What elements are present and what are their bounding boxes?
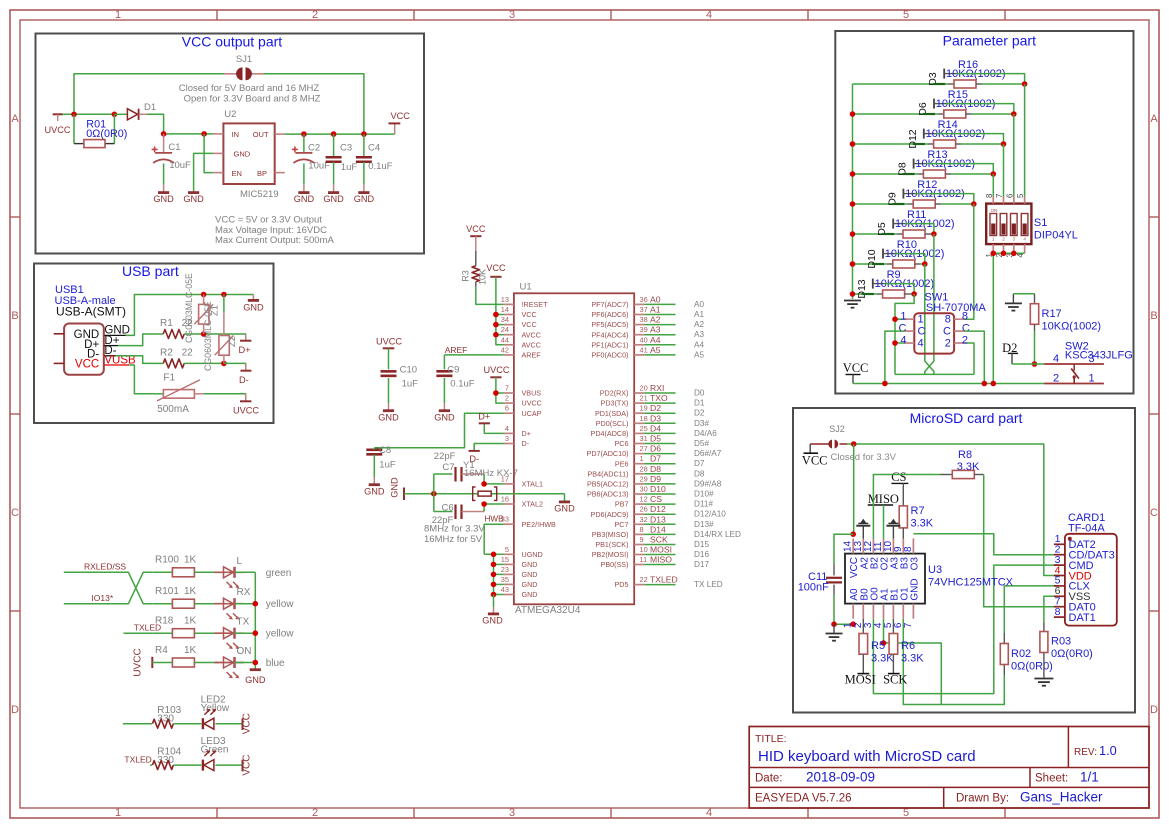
svg-text:VCC: VCC	[522, 310, 537, 319]
wire LED2 to VCC	[215, 723, 242, 725]
junction pin34	[493, 322, 499, 328]
U3 pin 9 B3	[893, 539, 911, 570]
LED2 Yellow	[201, 695, 230, 730]
mini ground U3 pin13	[856, 519, 870, 539]
U1 pin 16 XTAL2	[501, 495, 543, 509]
svg-text:D7: D7	[650, 454, 661, 464]
svg-text:D14: D14	[650, 524, 666, 534]
bus stub 14	[496, 314, 504, 316]
svg-text:PC6: PC6	[615, 439, 629, 448]
svg-text:19: 19	[640, 404, 648, 413]
U1 pin 34 VCC	[501, 315, 537, 329]
svg-text:VBUS: VBUS	[522, 389, 542, 398]
U3 pin 2 B0	[853, 588, 871, 628]
LED2 row wire	[123, 723, 152, 725]
junction R12 right	[971, 201, 977, 207]
svg-text:XTAL2: XTAL2	[522, 500, 543, 509]
svg-text:R101: R101	[155, 586, 179, 597]
section box: Parameter part	[835, 31, 1133, 394]
diode D3	[927, 69, 956, 86]
svg-text:PE2/!HWB: PE2/!HWB	[522, 520, 557, 529]
junction rail C-right	[982, 381, 988, 387]
svg-text:PD2(RX): PD2(RX)	[600, 389, 629, 398]
svg-text:D11#: D11#	[694, 500, 713, 509]
svg-text:0.1uF: 0.1uF	[368, 161, 392, 172]
svg-text:U1: U1	[520, 282, 532, 293]
resistor R11 10K	[895, 209, 955, 238]
svg-text:MISO: MISO	[650, 555, 672, 565]
junction A1 link	[881, 640, 887, 646]
net label D- pin3	[469, 444, 504, 465]
wire D1 to IN node	[147, 114, 164, 134]
wire EN tie	[204, 134, 213, 173]
svg-text:16MHz KX-7: 16MHz KX-7	[464, 468, 518, 479]
svg-text:TITLE:: TITLE:	[755, 733, 787, 745]
LED right bus	[254, 572, 256, 669]
wire R3 to pin13	[476, 287, 504, 305]
svg-text:SCK: SCK	[883, 673, 907, 687]
title block	[749, 727, 1149, 809]
svg-text:3: 3	[509, 9, 515, 21]
U1 pin 20 PD2(RX) net RXI	[600, 383, 705, 398]
U1 pin 41 PF0(ADC0) net A5	[591, 345, 704, 360]
svg-text:30: 30	[640, 485, 648, 494]
svg-text:4: 4	[706, 807, 712, 819]
U1 pin 9 PB1(SCK) net SCK	[595, 535, 709, 550]
wire IN row	[164, 133, 214, 135]
svg-text:HWB: HWB	[485, 515, 505, 524]
solder jumper SJ1	[224, 54, 264, 80]
svg-text:R100: R100	[155, 555, 179, 566]
junction Z2 top	[221, 292, 227, 298]
wire row R10 lower	[853, 263, 887, 265]
svg-text:!RESET: !RESET	[522, 300, 549, 309]
wire UCAP to C8	[374, 413, 504, 448]
U1 pin 38 PF5(ADC5) net A2	[591, 315, 704, 330]
wire VCC rail to C11	[834, 534, 853, 564]
resistor R7 3.3K	[899, 483, 934, 538]
svg-text:A4: A4	[650, 335, 661, 345]
U1 pin 33 PE2/!HWB	[501, 515, 556, 529]
svg-text:1K: 1K	[184, 586, 197, 597]
svg-text:TXLED: TXLED	[124, 755, 151, 765]
net port VCC parameter	[843, 361, 869, 384]
svg-text:REV:: REV:	[1074, 747, 1097, 758]
svg-text:3.3K: 3.3K	[901, 653, 924, 665]
CARD1 pin 1 DAT2	[1054, 533, 1096, 551]
U1 pin 17 XTAL1	[501, 474, 543, 488]
svg-text:Max Current Output: 500mA: Max Current Output: 500mA	[215, 235, 334, 246]
diode D9	[886, 189, 915, 206]
wire R14 vertical to DIP pin7	[1003, 144, 1005, 197]
diode D6	[917, 99, 946, 116]
svg-text:D4/A6: D4/A6	[694, 429, 717, 438]
junction SW1 pin1	[892, 316, 898, 322]
svg-text:1K: 1K	[184, 555, 197, 566]
svg-text:OUT: OUT	[253, 130, 269, 139]
svg-text:32: 32	[640, 515, 648, 524]
svg-text:GND: GND	[554, 504, 575, 514]
diode D1	[127, 102, 156, 120]
net label D+ usb	[104, 335, 119, 347]
U1 pin 24 AVCC	[501, 325, 541, 339]
U1 pin 39 PF4(ADC4) net A3	[591, 325, 704, 340]
junction bus RX	[253, 601, 259, 607]
junction S1 pin2	[1001, 251, 1007, 257]
resistor R2 22	[153, 347, 224, 368]
svg-text:GND: GND	[482, 616, 503, 626]
wire VCC bus pins 14-44	[496, 277, 504, 345]
svg-text:ON: ON	[991, 208, 998, 213]
section box: VCC output part	[36, 33, 425, 253]
U1 pin 36 PF7(ADC7) net A0	[591, 294, 704, 309]
svg-text:D+: D+	[522, 429, 531, 438]
svg-text:PF6(ADC6): PF6(ADC6)	[591, 310, 628, 319]
svg-text:GND: GND	[522, 580, 538, 589]
svg-text:34: 34	[501, 315, 509, 324]
svg-text:23: 23	[501, 565, 509, 574]
svg-text:7: 7	[903, 622, 914, 628]
svg-text:8MHz for 3.3V: 8MHz for 3.3V	[424, 524, 485, 535]
U1 pin 5 UGND	[504, 545, 543, 559]
wire R104 to LED3	[173, 764, 201, 766]
svg-text:25: 25	[640, 424, 648, 433]
junction bus ON	[253, 660, 259, 666]
svg-text:D16: D16	[694, 550, 709, 559]
wire R15 to vertical	[972, 113, 1014, 115]
wire diode D6 upper	[946, 104, 1014, 114]
svg-text:GND: GND	[364, 487, 385, 497]
svg-text:41: 41	[640, 345, 648, 354]
net flag VCC bus	[486, 263, 506, 277]
junction U3 VCC node	[850, 531, 856, 537]
svg-text:3: 3	[1088, 353, 1094, 365]
S1 bottom pins 1 2 3 4	[985, 244, 1025, 257]
svg-text:C: C	[918, 326, 926, 338]
svg-text:AREF: AREF	[522, 351, 542, 360]
svg-text:1: 1	[1088, 372, 1094, 384]
wire AREF	[444, 354, 504, 356]
svg-text:D10: D10	[866, 249, 878, 268]
svg-text:C: C	[11, 507, 19, 519]
LED RX	[215, 587, 251, 619]
svg-text:1uF: 1uF	[341, 162, 358, 173]
svg-text:TX LED: TX LED	[694, 580, 723, 589]
svg-text:AVCC: AVCC	[522, 340, 541, 349]
resistor R104 330	[152, 747, 181, 770]
resistor R4 1K	[155, 645, 197, 667]
svg-text:VCC: VCC	[242, 713, 253, 734]
svg-text:CG0603MLC-05E: CG0603MLC-05E	[203, 301, 213, 371]
wire LED L to bus	[235, 571, 256, 573]
junction C3	[331, 131, 337, 137]
svg-text:RXI: RXI	[650, 383, 664, 393]
svg-text:C7: C7	[442, 462, 454, 473]
svg-text:XTAL1: XTAL1	[522, 480, 543, 489]
wire diode D13 upper	[885, 284, 914, 294]
net flag UVCC right	[233, 394, 259, 416]
wire SW1 pin4 stub link	[895, 342, 904, 344]
switch SW2 KSC343JLFG	[1044, 341, 1133, 385]
junction R01 left	[71, 112, 77, 118]
svg-text:D: D	[11, 704, 19, 716]
bus stub 5	[494, 553, 504, 555]
svg-text:16MHz for 5V: 16MHz for 5V	[424, 534, 483, 545]
svg-text:VCC: VCC	[75, 359, 99, 371]
svg-text:22: 22	[640, 575, 648, 584]
junction pin15	[491, 562, 497, 568]
svg-text:2: 2	[945, 338, 951, 350]
svg-text:1K: 1K	[184, 645, 197, 656]
fuse F1 500mA	[153, 373, 204, 416]
net flag VCC led3	[242, 755, 253, 776]
svg-text:UVCC: UVCC	[522, 399, 542, 408]
resistor R15 10K	[936, 89, 996, 118]
wire R11 vertical through SW1	[925, 234, 934, 374]
svg-text:A: A	[11, 113, 19, 125]
svg-text:GND: GND	[183, 194, 204, 204]
svg-text:3.3K: 3.3K	[911, 518, 934, 530]
wire LED3 to VCC	[215, 764, 242, 766]
wire C11 to ground rail	[834, 595, 855, 625]
svg-text:C1: C1	[168, 142, 180, 153]
svg-text:B: B	[11, 310, 18, 322]
capacitor C4 0.1uF	[356, 134, 393, 192]
svg-text:GND: GND	[522, 560, 538, 569]
junction C1 node	[161, 131, 167, 137]
svg-text:TXLED: TXLED	[650, 575, 678, 585]
earth ground R03	[1034, 679, 1053, 686]
svg-text:27: 27	[640, 444, 648, 453]
svg-text:RXLED/SS: RXLED/SS	[84, 562, 126, 572]
svg-text:22: 22	[182, 347, 194, 358]
wire row R15 lower	[853, 113, 938, 115]
svg-text:D3#: D3#	[694, 419, 709, 428]
wire F1 to UVCC flag	[204, 394, 246, 400]
svg-text:8: 8	[903, 546, 914, 552]
svg-text:D8: D8	[650, 464, 661, 474]
U1 pin 31 PC6 net D5	[615, 434, 710, 449]
U1 pin 1 PE6 net D7	[615, 454, 705, 469]
svg-text:R03: R03	[1051, 636, 1071, 648]
svg-text:Closed for 3.3V: Closed for 3.3V	[831, 452, 897, 463]
note closed/open	[179, 83, 321, 105]
diode D12	[907, 129, 936, 149]
resistor R3 10K	[461, 251, 488, 287]
svg-text:D9: D9	[650, 474, 661, 484]
junction pin1 gnd	[850, 621, 856, 627]
svg-text:GND: GND	[354, 194, 375, 204]
svg-text:31: 31	[640, 434, 648, 443]
svg-text:D12: D12	[650, 504, 666, 514]
svg-text:11: 11	[640, 555, 648, 564]
svg-text:4: 4	[918, 338, 924, 350]
wire R10 vertical through SW1	[925, 264, 934, 374]
switch SW1 SH-7070MA body	[899, 292, 987, 354]
net label AREF	[445, 345, 468, 355]
resistor R10 10K	[885, 239, 945, 268]
junction XTAL1	[481, 481, 487, 487]
svg-text:B: B	[1150, 310, 1157, 322]
resistor R03 0ohm	[1040, 622, 1093, 678]
svg-text:GND: GND	[234, 150, 251, 159]
svg-text:MIC5219: MIC5219	[240, 189, 279, 200]
svg-text:D5#: D5#	[694, 439, 709, 448]
svg-text:PB5(ADC12): PB5(ADC12)	[587, 480, 629, 489]
svg-text:UVCC: UVCC	[376, 337, 402, 347]
wire R1 to D+ flag	[204, 334, 246, 340]
wire SW1 C left to rail	[885, 331, 904, 383]
svg-text:PE6: PE6	[615, 459, 629, 468]
ground earth R17	[1005, 294, 1022, 311]
junction bus R10	[850, 261, 856, 267]
svg-text:PD4(ADC8): PD4(ADC8)	[591, 429, 629, 438]
U1 pin 2 UVCC	[504, 394, 542, 408]
wire R17 top	[1013, 293, 1034, 295]
diode D10	[866, 249, 895, 269]
junction bus R13	[850, 171, 856, 177]
svg-text:IN: IN	[232, 130, 240, 139]
svg-text:MicroSD card part: MicroSD card part	[910, 410, 1023, 426]
svg-text:DIP04YL: DIP04YL	[1034, 230, 1078, 242]
svg-text:A2: A2	[694, 320, 704, 329]
svg-text:PD6(ADC9): PD6(ADC9)	[591, 510, 629, 519]
svg-text:D6#/A7: D6#/A7	[694, 449, 722, 458]
svg-text:10: 10	[640, 545, 648, 554]
CARD1 pin 4 VDD	[1054, 564, 1092, 582]
ground flag GND U2	[183, 193, 204, 204]
svg-text:10uF: 10uF	[169, 160, 191, 171]
svg-text:PB0(SS): PB0(SS)	[601, 560, 629, 569]
ground flag GND C2	[294, 193, 315, 204]
svg-text:9: 9	[640, 535, 644, 544]
junction SW2 pin4 node	[1032, 361, 1038, 367]
U3 pin 10 A3	[883, 539, 901, 570]
wire LED TX to bus	[235, 632, 256, 634]
svg-text:PF5(ADC5): PF5(ADC5)	[591, 320, 628, 329]
ground flag GND led bus	[245, 670, 266, 685]
svg-text:GND: GND	[245, 675, 266, 685]
wire GND to top rail	[126, 295, 254, 336]
svg-text:C: C	[899, 323, 907, 335]
IC U2 MIC5219	[213, 109, 285, 200]
bus stub 23	[494, 573, 504, 575]
U3 pin 3 O0	[863, 587, 881, 628]
wire UVCC bus pins 7-2	[496, 377, 504, 403]
svg-text:D3: D3	[650, 413, 661, 423]
svg-text:13: 13	[501, 295, 509, 304]
svg-text:D-: D-	[239, 375, 249, 385]
solder jumper SJ2	[810, 424, 847, 449]
junction EN tap	[201, 131, 207, 137]
svg-text:74VHC125MTCX: 74VHC125MTCX	[928, 577, 1014, 589]
wire R02 to CLX	[1004, 586, 1058, 633]
svg-text:1: 1	[900, 311, 906, 323]
svg-text:A4: A4	[694, 340, 704, 349]
wire R101 leads	[152, 603, 172, 605]
svg-text:D: D	[1150, 704, 1158, 716]
U1 pin 19 PD1(SDA) net D2	[595, 403, 705, 418]
svg-text:A2: A2	[650, 315, 661, 325]
wire R12 vertical to SW1 pin8	[964, 204, 973, 319]
junction C7/C6 rail	[431, 491, 437, 497]
net label HWB pin33	[484, 515, 504, 555]
wire row R14 lower	[853, 143, 928, 145]
U3 pin 13 A2	[853, 539, 871, 570]
svg-text:C: C	[962, 323, 970, 335]
svg-text:D6: D6	[650, 444, 661, 454]
wire row R16 lower	[853, 83, 949, 85]
svg-text:SJ1: SJ1	[236, 54, 252, 65]
svg-text:R8: R8	[958, 449, 972, 461]
svg-text:R18: R18	[155, 616, 174, 627]
svg-text:D2: D2	[650, 403, 661, 413]
svg-text:R02: R02	[1011, 648, 1031, 660]
svg-text:D17: D17	[694, 560, 709, 569]
svg-text:5: 5	[1016, 193, 1025, 198]
ground flag GND usb right	[243, 295, 264, 313]
svg-text:VCC = 5V or 3.3V Output: VCC = 5V or 3.3V Output	[215, 215, 322, 226]
svg-text:U3: U3	[928, 564, 942, 576]
junction rail DIP pin1	[991, 381, 997, 387]
svg-text:A5: A5	[650, 345, 661, 355]
svg-text:D13: D13	[856, 279, 868, 298]
diode D5	[876, 219, 905, 236]
svg-text:R5: R5	[871, 640, 885, 652]
net label D2	[1002, 341, 1018, 364]
wire SW1 pin1 stub link	[895, 318, 904, 320]
svg-text:A3: A3	[694, 330, 704, 339]
wire diode D3 upper	[956, 74, 1024, 84]
U1 pin 29 PB5(ADC12) net D9	[587, 474, 722, 489]
svg-text:500mA: 500mA	[157, 404, 189, 415]
U3 pin 6 O1	[893, 587, 911, 628]
junction pin24	[493, 332, 499, 338]
svg-text:8: 8	[945, 314, 951, 326]
svg-text:D10: D10	[650, 484, 666, 494]
diode D8	[897, 159, 926, 176]
CARD1 pin 8 DAT1	[1054, 606, 1096, 624]
svg-text:D12: D12	[907, 129, 919, 148]
svg-text:PB4(ADC11): PB4(ADC11)	[587, 469, 628, 478]
svg-text:Open for 3.3V Board and 8 MHZ: Open for 3.3V Board and 8 MHZ	[184, 94, 321, 105]
svg-text:24: 24	[501, 325, 509, 334]
junction bus R12	[850, 201, 856, 207]
wire SW1 C right to rail	[964, 331, 984, 383]
ground flag GND C4	[354, 193, 375, 204]
svg-text:C: C	[943, 326, 951, 338]
svg-text:PB3(MISO): PB3(MISO)	[592, 530, 629, 539]
svg-text:39: 39	[640, 325, 648, 334]
svg-text:15: 15	[501, 555, 509, 564]
parameter left bus	[852, 84, 854, 299]
svg-text:blue: blue	[266, 658, 285, 669]
junction bus TX	[253, 630, 259, 636]
junction Z2 bottom	[221, 361, 227, 367]
svg-text:GND: GND	[909, 578, 920, 600]
svg-text:PF1(ADC1): PF1(ADC1)	[591, 340, 628, 349]
svg-text:UVCC: UVCC	[233, 406, 259, 416]
LED3 row wire	[150, 764, 152, 766]
svg-text:8: 8	[985, 194, 994, 198]
svg-text:8: 8	[962, 311, 968, 323]
bus stub 15	[494, 563, 504, 565]
wire R8 left to B2	[873, 475, 940, 539]
resistor R16 10K	[946, 59, 1006, 88]
junction pin5	[491, 552, 497, 558]
svg-text:A3: A3	[650, 325, 661, 335]
net label VUSB	[104, 355, 136, 367]
